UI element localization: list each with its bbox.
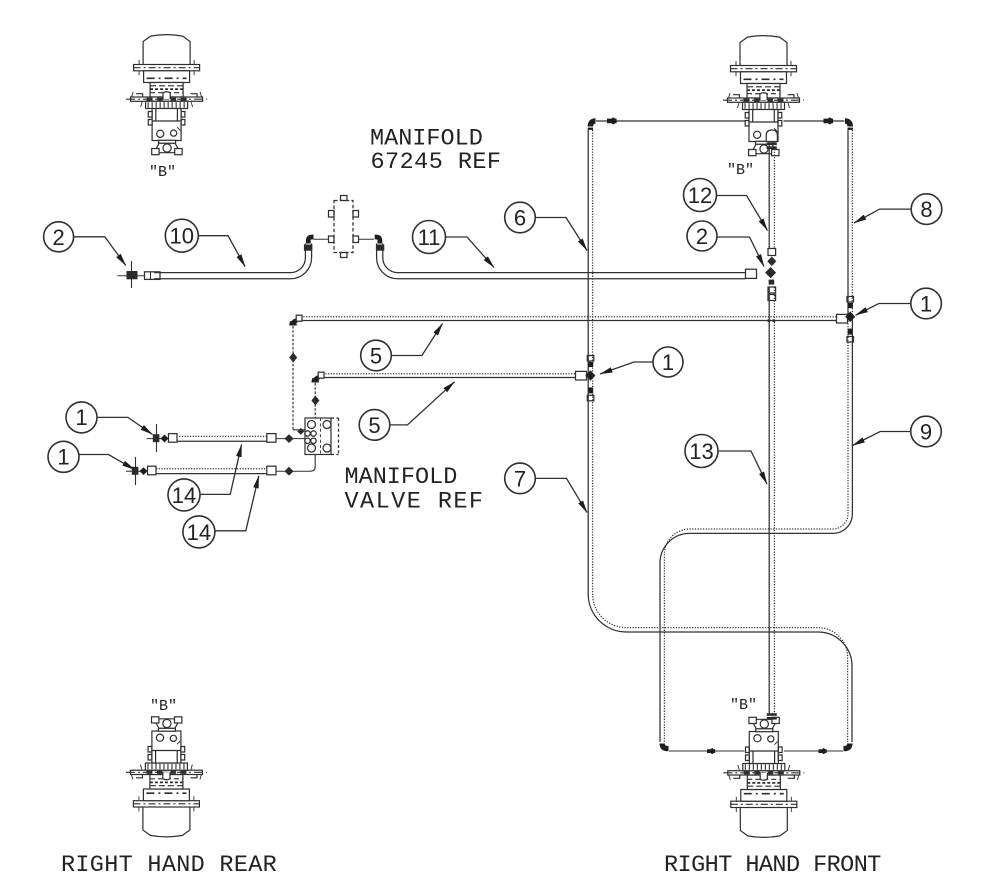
fitting diamond on top run right bbox=[824, 117, 834, 124]
manifold valve block bbox=[305, 418, 339, 455]
callout balloon 14 upper bbox=[168, 445, 242, 511]
callout balloon 11 bbox=[413, 221, 495, 268]
text MANIFOLD VALVE REF bbox=[345, 464, 485, 516]
motor right-hand-rear bottom view bbox=[126, 717, 207, 837]
svg-text:10: 10 bbox=[170, 224, 194, 249]
hose 13 bbox=[767, 287, 777, 720]
svg-text:MANIFOLD: MANIFOLD bbox=[345, 464, 458, 491]
hose 6 top-left elbow bbox=[588, 121, 596, 130]
svg-text:2: 2 bbox=[696, 224, 708, 249]
callout balloon 2 right bbox=[687, 221, 764, 267]
callout balloon 5 upper bbox=[361, 324, 443, 371]
callout balloon 6 bbox=[505, 202, 587, 250]
svg-text:1: 1 bbox=[75, 405, 87, 430]
callout balloon 2 left bbox=[44, 222, 126, 266]
svg-text:9: 9 bbox=[920, 420, 932, 445]
callout balloon 10 bbox=[165, 219, 245, 266]
callout balloon 8 bbox=[854, 194, 942, 225]
svg-text:″B″: ″B″ bbox=[149, 164, 176, 181]
callout balloon 5 lower bbox=[359, 382, 454, 440]
callout balloon 1 left lower bbox=[48, 441, 135, 472]
svg-text:67245 REF: 67245 REF bbox=[371, 149, 502, 176]
tee fitting node hose 8-9-5 bbox=[845, 297, 855, 343]
motor right-hand-front top view "B" bbox=[723, 36, 804, 156]
svg-text:1: 1 bbox=[57, 445, 69, 470]
svg-text:″B″: ″B″ bbox=[150, 698, 177, 715]
motor right-hand-rear top view "B" bbox=[126, 35, 207, 155]
tee fitting node hose 6-7-5 bbox=[585, 356, 595, 401]
svg-text:12: 12 bbox=[688, 183, 712, 208]
svg-text:1: 1 bbox=[920, 292, 932, 317]
hose 14 upper bbox=[147, 424, 306, 452]
svg-text:13: 13 bbox=[689, 439, 713, 464]
svg-text:VALVE REF: VALVE REF bbox=[345, 489, 485, 516]
hose 7 bbox=[588, 375, 852, 754]
callout balloon 7 bbox=[505, 463, 587, 512]
svg-text:11: 11 bbox=[418, 225, 441, 250]
svg-text:2: 2 bbox=[52, 225, 64, 250]
hose 5 upper bbox=[289, 314, 847, 434]
svg-text:6: 6 bbox=[514, 206, 526, 231]
svg-text:″B″: ″B″ bbox=[730, 697, 757, 714]
callout balloon 1 middle bbox=[600, 347, 683, 377]
hose 11 bbox=[375, 237, 757, 279]
callout balloon 9 bbox=[853, 416, 942, 447]
hose 6 vertical bbox=[587, 130, 589, 375]
hose 5 lower bbox=[311, 371, 586, 418]
tee fitting node hoses 11-12-13 bbox=[765, 267, 776, 285]
hose 10 left elbow fitting node bbox=[118, 261, 145, 288]
hose 6 top run to motor bbox=[596, 120, 845, 122]
svg-text:RIGHT HAND REAR: RIGHT HAND REAR bbox=[61, 852, 277, 879]
svg-text:5: 5 bbox=[370, 344, 382, 369]
svg-text:8: 8 bbox=[920, 197, 932, 222]
hose 8 vertical bbox=[847, 130, 849, 318]
callout balloon 13 bbox=[685, 435, 767, 485]
svg-text:5: 5 bbox=[368, 413, 380, 438]
callout balloon 12 bbox=[684, 179, 768, 231]
hose 10 bbox=[145, 237, 314, 279]
fitting diamond on top run left bbox=[607, 117, 617, 124]
hose 14 lower bbox=[126, 455, 315, 486]
callout balloon 1 right bbox=[856, 288, 942, 319]
callout balloon 14 lower bbox=[183, 476, 259, 548]
hose 8 top-right elbow bbox=[845, 121, 853, 130]
svg-text:14: 14 bbox=[187, 520, 211, 545]
motor right-hand-front bottom view bbox=[723, 717, 804, 837]
manifold 67245 block bbox=[314, 196, 375, 258]
hose 12 bbox=[766, 130, 777, 266]
text MANIFOLD 67245 REF bbox=[370, 126, 501, 177]
svg-text:7: 7 bbox=[514, 466, 526, 491]
svg-text:14: 14 bbox=[172, 483, 196, 508]
svg-text:RIGHT HAND FRONT: RIGHT HAND FRONT bbox=[664, 852, 881, 879]
svg-text:1: 1 bbox=[662, 350, 674, 375]
callout balloon 1 left upper bbox=[66, 402, 153, 435]
svg-text:″B″: ″B″ bbox=[727, 162, 754, 179]
hose 9 bbox=[660, 318, 852, 754]
